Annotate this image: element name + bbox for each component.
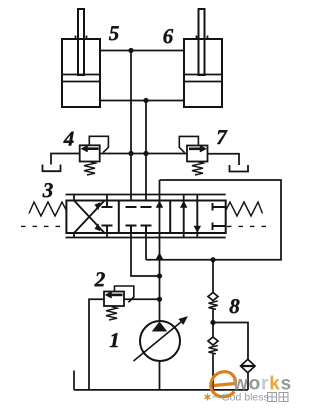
- node pump junction y276: [157, 274, 162, 279]
- wire valve3 B port down: [145, 226, 147, 260]
- wire check column upper: [212, 260, 214, 293]
- label 4: [63, 132, 73, 146]
- watermark eworks logo: [211, 372, 292, 397]
- wire pump suction: [159, 361, 161, 390]
- wire valve3 A port down to pump node: [131, 226, 160, 277]
- wire check column mid: [212, 309, 214, 337]
- node junction B2: [144, 151, 149, 156]
- ground tank T4: [43, 165, 61, 172]
- valve3 left spring: [29, 202, 66, 216]
- wire filter to bottom: [247, 373, 249, 390]
- valve V3 rails: [66, 194, 226, 196]
- label 3: [43, 183, 53, 197]
- cylinder C6: [184, 9, 222, 107]
- label 8: [230, 299, 240, 313]
- valve3 crossed arrows: [74, 201, 105, 234]
- check valve CV2: [208, 337, 218, 354]
- wire valve2 left to tank: [89, 299, 104, 390]
- label 6: [164, 29, 174, 43]
- valve3 side blocked ports right: [213, 203, 226, 230]
- valve3 blocked ports section1: [102, 201, 113, 234]
- node pump junction y299: [157, 297, 162, 302]
- label 5: [109, 26, 119, 40]
- wire bottom tank line: [74, 389, 248, 391]
- wire bottom left tick: [73, 371, 75, 390]
- flow arrow on pump line: [156, 253, 163, 260]
- wire line B down: [145, 101, 147, 208]
- label 2: [95, 272, 105, 286]
- valve V3 divider 1: [118, 201, 120, 234]
- node filter branch junction: [211, 320, 216, 325]
- node junction on T1: [129, 48, 134, 53]
- cylinder C5: [62, 9, 100, 107]
- label 1: [110, 333, 118, 347]
- valve U2 relief: [104, 286, 134, 320]
- valve3 right axis dash: [227, 225, 271, 227]
- svg-text:God bless: God bless: [222, 392, 269, 404]
- wire pump pressure line: [159, 180, 161, 322]
- valve3 up arrow line: [183, 201, 185, 234]
- wire check column lower: [212, 354, 214, 390]
- node loop junction check8: [211, 257, 216, 262]
- valve3 pump-line up arrow: [156, 201, 163, 207]
- valve V3 body: [66, 201, 225, 234]
- wire stubs valve3 bottom: [74, 233, 197, 238]
- ground tank T7: [230, 165, 249, 172]
- wire rod-side line T1: [100, 50, 184, 52]
- label 7: [217, 130, 227, 144]
- wire filter branch: [213, 323, 248, 360]
- pump P1 variable: [134, 317, 188, 362]
- wire cap-side line T2: [100, 100, 184, 102]
- valve U4 counterbalance: [80, 136, 109, 175]
- valve3 down arrow line: [196, 201, 198, 234]
- valve3 right spring: [226, 202, 263, 216]
- node junction on T2: [144, 98, 149, 103]
- valve V3 divider 2: [169, 201, 171, 234]
- valve3 left axis dash: [21, 225, 65, 227]
- wire valve4 to valve7: [100, 153, 187, 155]
- wire valve4 left to tank: [51, 154, 80, 165]
- wire line A down: [130, 51, 132, 208]
- wire valve2 to pump line: [124, 298, 160, 300]
- wire right loop: [146, 180, 281, 260]
- valve3 blocked ports section2: [126, 207, 137, 233]
- watermark subtitle: [205, 392, 289, 404]
- valve U7 counterbalance: [179, 136, 207, 175]
- filter F1: [241, 359, 255, 372]
- node junction A2: [129, 151, 134, 156]
- wire stubs valve3 top: [74, 195, 197, 201]
- check valve CV1: [208, 293, 218, 310]
- wire valve7 right to tank: [208, 154, 240, 165]
